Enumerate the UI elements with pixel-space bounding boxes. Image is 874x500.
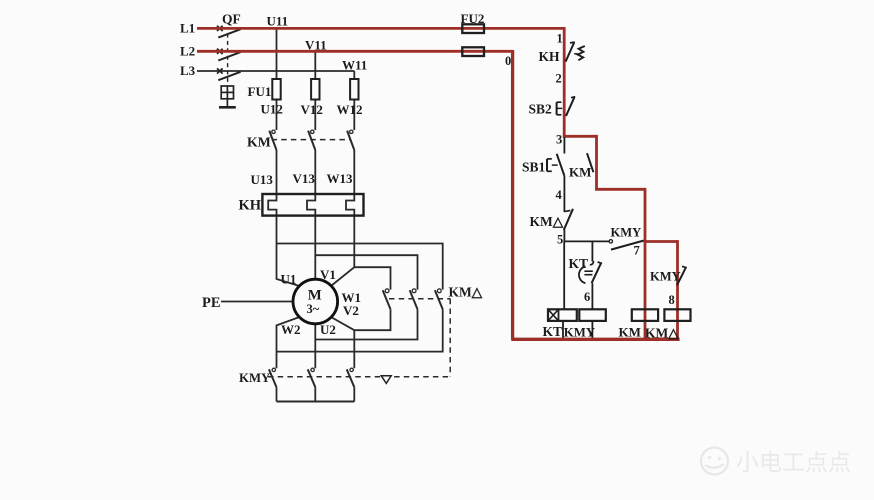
svg-text:KMY: KMY [611,226,642,240]
svg-text:V1: V1 [320,267,336,282]
svg-text:KT: KT [569,256,589,271]
svg-text:KM△: KM△ [645,325,680,340]
svg-text:KH: KH [539,49,561,64]
svg-text:8: 8 [669,293,675,307]
svg-text:5: 5 [557,233,563,247]
svg-text:V11: V11 [305,37,327,52]
svg-text:KMY: KMY [650,270,681,284]
svg-text:U12: U12 [261,102,283,117]
svg-text:KM: KM [569,165,591,180]
svg-text:小电工点点: 小电工点点 [736,449,851,475]
svg-text:3~: 3~ [307,302,320,316]
svg-text:1: 1 [557,31,563,45]
svg-text:W13: W13 [327,171,354,186]
svg-text:U2: U2 [320,322,336,337]
svg-text:QF: QF [222,12,241,27]
svg-text:U13: U13 [251,172,274,187]
svg-text:KMY: KMY [564,325,595,339]
svg-text:2: 2 [556,71,562,85]
svg-text:KT: KT [543,324,563,339]
svg-text:FU2: FU2 [461,11,485,26]
svg-text:0: 0 [505,54,511,68]
svg-text:W12: W12 [337,102,363,117]
svg-text:L2: L2 [180,43,195,58]
svg-text:3: 3 [556,133,562,147]
svg-text:SB1: SB1 [522,159,546,174]
svg-text:W11: W11 [342,58,367,73]
svg-text:KM: KM [247,134,271,149]
svg-text:7: 7 [634,244,640,258]
svg-text:KH: KH [239,198,262,214]
svg-text:PE: PE [202,295,221,311]
svg-text:SB2: SB2 [529,102,553,117]
svg-text:FU1: FU1 [248,84,272,99]
svg-text:KM: KM [619,324,641,339]
svg-text:L1: L1 [180,20,195,35]
svg-text:6: 6 [584,290,590,304]
svg-text:W2: W2 [281,322,301,337]
svg-text:V2: V2 [343,303,359,318]
svg-text:V13: V13 [293,171,316,186]
svg-text:U1: U1 [281,272,297,287]
svg-text:V12: V12 [301,102,323,117]
svg-text:KMY: KMY [239,371,270,385]
svg-text:KM△: KM△ [449,284,484,299]
svg-text:L3: L3 [180,63,196,78]
svg-text:KM△: KM△ [530,214,565,229]
svg-text:U11: U11 [267,14,289,29]
svg-text:4: 4 [556,188,563,202]
